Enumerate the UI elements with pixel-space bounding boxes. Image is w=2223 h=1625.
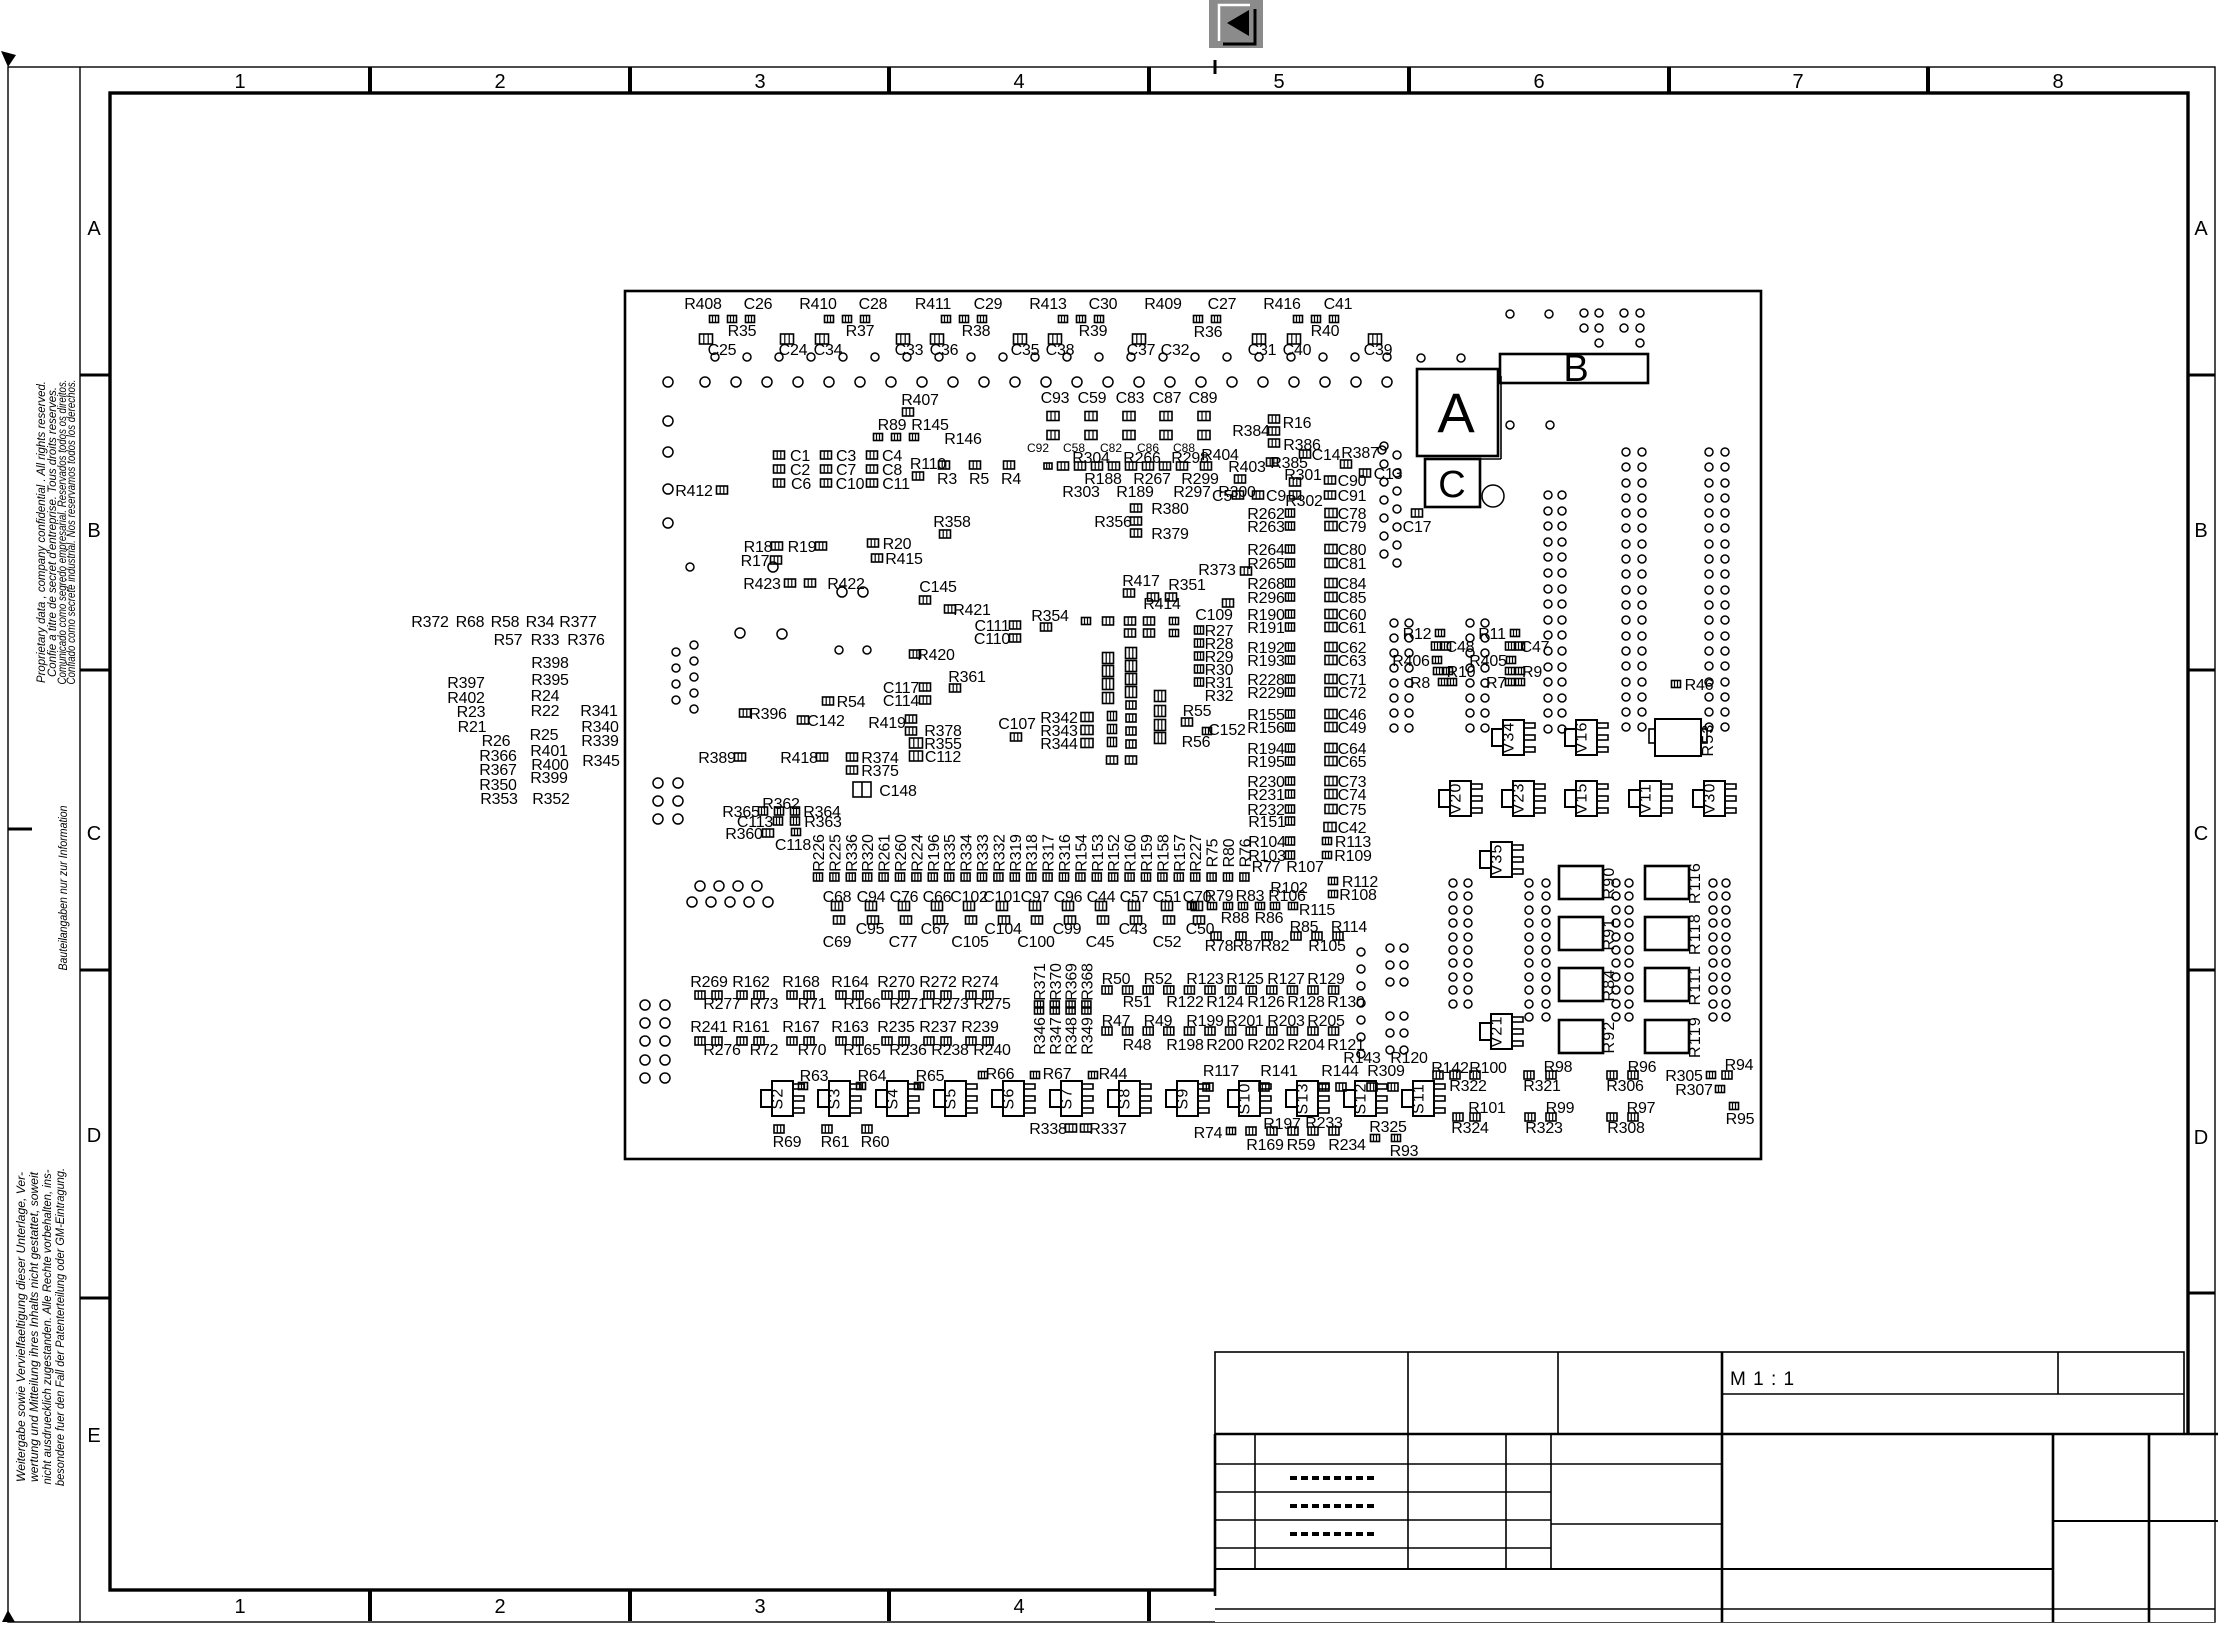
capacitor C37	[1127, 342, 1156, 359]
resistor R413	[1029, 296, 1067, 313]
resistor R87	[1233, 938, 1262, 955]
svg-text:R346: R346	[1032, 1017, 1049, 1055]
capacitor C148	[853, 782, 917, 800]
resistor R47	[1102, 1013, 1131, 1030]
svg-text:R261: R261	[877, 834, 894, 872]
capacitor C71	[1325, 672, 1367, 689]
resistor R350	[479, 777, 517, 794]
resistor R236	[889, 1042, 927, 1059]
capacitor C26	[744, 296, 773, 313]
resistor R349	[1079, 1017, 1096, 1055]
resistor R229	[1247, 685, 1294, 702]
svg-text:S5: S5	[943, 1088, 960, 1110]
resistor R371	[1032, 963, 1049, 1001]
svg-text:R309: R309	[1367, 1063, 1405, 1080]
capacitor C35	[1011, 342, 1040, 359]
svg-text:R86: R86	[1255, 910, 1284, 927]
resistor R265	[1247, 556, 1294, 573]
through-hole pads	[1390, 619, 1489, 732]
resistor R36	[1194, 324, 1223, 341]
resistor R410	[799, 296, 837, 313]
svg-text:R413: R413	[1029, 296, 1067, 313]
transistor S3	[818, 1081, 861, 1116]
capacitor C5	[1212, 488, 1244, 505]
svg-text:V30: V30	[1702, 782, 1719, 814]
svg-text:R369: R369	[1064, 963, 1081, 1001]
svg-text:C97: C97	[1021, 889, 1050, 906]
svg-text:C33: C33	[895, 342, 924, 359]
resistor R82	[1261, 938, 1290, 955]
resistor R56	[1182, 734, 1211, 751]
transistor V30	[1693, 781, 1736, 816]
resistor R68	[456, 614, 485, 631]
svg-text:R204: R204	[1287, 1037, 1325, 1054]
resistor R124	[1206, 994, 1244, 1011]
svg-text:R87: R87	[1233, 938, 1262, 955]
resistor R237	[919, 1019, 957, 1036]
resistor R376	[567, 632, 605, 649]
Weitergabe notice text	[14, 1168, 67, 1486]
resistor R395	[531, 672, 569, 689]
svg-text:R260: R260	[893, 834, 910, 872]
resistor R261	[877, 834, 894, 881]
svg-text:R118: R118	[1687, 913, 1704, 955]
svg-text:R195: R195	[1247, 754, 1285, 771]
svg-text:C57: C57	[1120, 889, 1149, 906]
svg-text:R265: R265	[1247, 556, 1285, 573]
resistor R263	[1247, 519, 1294, 536]
resistor R65	[915, 1068, 945, 1090]
svg-text:R395: R395	[531, 672, 569, 689]
capacitor C78	[1325, 506, 1367, 523]
resistor R321	[1523, 1078, 1561, 1095]
capacitor C97	[1021, 889, 1050, 906]
svg-text:C87: C87	[1153, 390, 1182, 407]
resistor R28	[1195, 636, 1234, 653]
svg-text:R368: R368	[1079, 963, 1096, 1001]
resistor R146	[944, 431, 982, 448]
capacitor C39	[1364, 342, 1393, 359]
resistor R386	[1283, 437, 1321, 454]
resistor R53	[1649, 719, 1717, 756]
svg-text:R88: R88	[1221, 910, 1250, 927]
zone letters left	[87, 218, 102, 1447]
capacitor C27	[1208, 296, 1237, 313]
capacitor C64	[1325, 741, 1367, 758]
svg-text:R200: R200	[1206, 1037, 1244, 1054]
svg-text:R72: R72	[750, 1042, 779, 1059]
resistor R356	[1094, 514, 1141, 531]
resistor R336	[844, 834, 861, 881]
resistor R199	[1186, 1013, 1224, 1030]
resistor R355	[910, 736, 963, 753]
resistor R8	[1410, 675, 1457, 692]
capacitor C48	[1432, 639, 1475, 656]
svg-text:C101: C101	[983, 889, 1021, 906]
svg-text:C41: C41	[1324, 296, 1353, 313]
svg-text:C63: C63	[1338, 653, 1367, 670]
resistor R33	[531, 632, 560, 649]
resistor R85	[1290, 919, 1319, 936]
resistor R227	[1188, 834, 1205, 881]
resistor R241	[690, 1019, 728, 1036]
svg-text:R332: R332	[991, 834, 1008, 872]
svg-text:R415: R415	[885, 551, 923, 568]
svg-text:R308: R308	[1607, 1120, 1645, 1137]
svg-text:R418: R418	[780, 750, 818, 767]
svg-text:R107: R107	[1286, 859, 1324, 876]
resistor R298	[1171, 450, 1209, 467]
svg-text:R126: R126	[1247, 994, 1285, 1011]
svg-text:R272: R272	[919, 974, 957, 991]
svg-text:C105: C105	[951, 934, 989, 951]
svg-text:R306: R306	[1606, 1078, 1644, 1095]
through-hole pads	[687, 881, 773, 907]
resistor R347	[1048, 1017, 1065, 1055]
resistor R109	[1323, 848, 1373, 865]
capacitor C80	[1325, 542, 1367, 559]
svg-text:R349: R349	[1079, 1017, 1096, 1055]
resistor R44	[1089, 1066, 1128, 1083]
resistor R55	[1182, 703, 1212, 726]
component pads	[695, 991, 993, 999]
svg-text:R122: R122	[1166, 994, 1204, 1011]
svg-text:R70: R70	[798, 1042, 827, 1059]
resistor R361	[948, 669, 986, 692]
svg-text:C145: C145	[919, 579, 957, 596]
resistor R271	[889, 996, 927, 1013]
svg-text:R423: R423	[743, 576, 781, 593]
resistor R378	[924, 723, 962, 740]
component pads	[1102, 986, 1339, 994]
svg-text:R168: R168	[782, 974, 820, 991]
resistor R94	[1725, 1057, 1754, 1074]
resistor R230	[1247, 774, 1294, 791]
resistor R362	[762, 796, 800, 813]
resistor R152	[1106, 834, 1123, 881]
svg-text:R34: R34	[526, 614, 555, 631]
resistor R112	[1329, 874, 1379, 891]
svg-text:R347: R347	[1048, 1017, 1065, 1055]
svg-text:C14: C14	[1312, 447, 1341, 464]
svg-text:C43: C43	[1119, 921, 1148, 938]
resistor R224	[909, 834, 926, 881]
svg-text:R338: R338	[1029, 1121, 1067, 1138]
svg-text:V20: V20	[1448, 782, 1465, 814]
capacitor C152	[1203, 722, 1247, 739]
svg-text:Confiado como secrete industri: Confiado como secrete industrial. Nos re…	[66, 380, 78, 685]
svg-text:C36: C36	[930, 342, 959, 359]
resistor R416	[1263, 296, 1301, 313]
resistor R267	[1133, 471, 1171, 488]
resistor R59	[1287, 1137, 1316, 1154]
resistor R125	[1226, 971, 1264, 988]
resistor R34	[526, 614, 555, 631]
resistor R164	[831, 974, 869, 991]
resistor R322	[1449, 1078, 1487, 1095]
svg-text:C5: C5	[1212, 488, 1232, 505]
svg-text:R153: R153	[1090, 834, 1107, 872]
svg-text:S4: S4	[885, 1088, 902, 1110]
resistor R408	[684, 296, 722, 313]
component pads	[1211, 932, 1343, 940]
transistor S7	[1050, 1081, 1093, 1116]
through-hole pads column	[1380, 442, 1401, 567]
resistor R417	[1122, 573, 1160, 597]
transistor V15	[1565, 781, 1608, 816]
svg-text:R353: R353	[480, 791, 518, 808]
capacitor C30	[1089, 296, 1118, 313]
capacitor C85	[1325, 590, 1367, 607]
svg-text:R360: R360	[725, 826, 763, 843]
svg-text:R77: R77	[1252, 859, 1281, 876]
resistor R83	[1236, 888, 1265, 905]
component pads	[1047, 412, 1210, 440]
svg-text:C83: C83	[1116, 390, 1145, 407]
svg-text:R421: R421	[953, 602, 991, 619]
resistor R31	[1195, 675, 1234, 692]
capacitor C87	[1153, 390, 1182, 407]
resistor R66	[979, 1066, 1015, 1083]
resistor R145	[911, 417, 949, 434]
svg-text:R276: R276	[703, 1042, 741, 1059]
svg-text:R334: R334	[959, 834, 976, 872]
resistor R348	[1064, 1017, 1081, 1055]
resistor R387	[1341, 445, 1380, 468]
svg-text:C109: C109	[1195, 607, 1233, 624]
svg-text:M 1 : 1: M 1 : 1	[1730, 1369, 1795, 1390]
svg-text:R169: R169	[1246, 1137, 1284, 1154]
transistor S8	[1108, 1081, 1151, 1116]
capacitor C43	[1119, 921, 1148, 938]
IC C	[1425, 459, 1480, 507]
resistor R363	[804, 814, 842, 831]
svg-text:R271: R271	[889, 996, 927, 1013]
svg-text:R238: R238	[931, 1042, 969, 1059]
resistor R39	[1079, 323, 1108, 340]
svg-text:C75: C75	[1338, 802, 1367, 819]
svg-text:C25: C25	[708, 342, 737, 359]
svg-text:R236: R236	[889, 1042, 927, 1059]
svg-text:Bauteilangaben nur zur Informa: Bauteilangaben nur zur Information	[56, 805, 70, 970]
resistor R204	[1287, 1037, 1325, 1054]
svg-text:V34: V34	[1501, 721, 1518, 753]
through-hole pad	[1378, 446, 1386, 454]
capacitor C95	[856, 921, 885, 938]
svg-text:R101: R101	[1468, 1100, 1506, 1117]
resistor R274	[961, 974, 999, 991]
capacitor C14	[1300, 447, 1341, 464]
svg-text:B: B	[87, 520, 100, 542]
component pads	[1102, 1027, 1339, 1035]
svg-text:R157: R157	[1172, 834, 1189, 872]
resistor R200	[1206, 1037, 1244, 1054]
resistor R239	[961, 1019, 999, 1036]
svg-text:R398: R398	[531, 655, 569, 672]
resistor R103	[1248, 848, 1294, 865]
transistor V23	[1502, 781, 1545, 816]
capacitor C58	[1063, 441, 1085, 455]
capacitor C88	[1173, 441, 1195, 455]
IC A	[1417, 369, 1501, 459]
svg-text:R307: R307	[1675, 1082, 1713, 1099]
component pads	[1188, 903, 1298, 910]
capacitor C24	[779, 342, 808, 359]
resistor R88	[1221, 910, 1250, 927]
svg-text:R202: R202	[1247, 1037, 1285, 1054]
resistor R63	[799, 1068, 829, 1090]
svg-text:R408: R408	[684, 296, 722, 313]
svg-text:C35: C35	[1011, 342, 1040, 359]
capacitor C13	[1360, 466, 1403, 483]
svg-text:R95: R95	[1726, 1111, 1755, 1128]
svg-text:C51: C51	[1153, 889, 1182, 906]
svg-text:R53: R53	[1700, 724, 1717, 757]
resistor R403	[1228, 459, 1266, 483]
transistor S4	[876, 1081, 919, 1116]
svg-text:C95: C95	[856, 921, 885, 938]
resistor R304	[1072, 450, 1110, 467]
svg-text:R322: R322	[1449, 1078, 1487, 1095]
svg-text:R40: R40	[1311, 323, 1340, 340]
svg-text:5: 5	[1273, 71, 1284, 93]
svg-text:C17: C17	[1403, 519, 1432, 536]
svg-text:C79: C79	[1338, 519, 1367, 536]
resistor R18	[744, 539, 783, 556]
through-hole pads	[640, 1000, 670, 1083]
capacitor C94	[857, 889, 886, 906]
component pads	[1103, 648, 1166, 765]
svg-text:R225: R225	[827, 834, 844, 872]
capacitor C67	[921, 921, 950, 938]
capacitor C31	[1248, 342, 1277, 359]
svg-text:3: 3	[754, 71, 765, 93]
resistor R26	[482, 733, 511, 750]
resistor R153	[1090, 834, 1107, 881]
through-hole pad row	[700, 377, 1392, 387]
svg-text:C85: C85	[1338, 590, 1367, 607]
svg-text:R377: R377	[559, 614, 597, 631]
resistor R419	[868, 715, 916, 735]
resistor R78	[1205, 938, 1234, 955]
svg-text:R89: R89	[878, 417, 907, 434]
svg-text:S2: S2	[770, 1088, 787, 1110]
resistor R369	[1064, 963, 1081, 1001]
resistor R16	[1283, 415, 1312, 432]
transistor V16	[1565, 720, 1608, 755]
svg-text:R389: R389	[698, 750, 736, 767]
resistor R423	[743, 576, 815, 593]
svg-text:R273: R273	[931, 996, 969, 1013]
svg-text:S13: S13	[1295, 1082, 1312, 1114]
svg-text:R108: R108	[1339, 887, 1377, 904]
capacitor C41	[1324, 296, 1353, 313]
svg-text:R17: R17	[741, 553, 770, 570]
resistor R104	[1248, 834, 1294, 851]
capacitor C107	[998, 716, 1036, 741]
svg-text:R384: R384	[1232, 423, 1270, 440]
capacitor C91	[1325, 488, 1367, 505]
svg-text:R111: R111	[1687, 965, 1704, 1006]
capacitor C99	[1053, 921, 1082, 938]
svg-text:nicht ausdruecklich zugestand: nicht ausdruecklich zugestanden. Alle Re…	[40, 1169, 54, 1484]
capacitor C96	[1054, 889, 1083, 906]
board outline	[625, 291, 1761, 1159]
resistor R74	[1194, 1125, 1236, 1142]
resistor R400	[531, 757, 569, 774]
resistor R384	[1232, 415, 1279, 447]
resistor R160	[1123, 834, 1140, 881]
resistor R339	[581, 733, 619, 750]
resistor R367	[479, 762, 517, 779]
svg-text:R375: R375	[861, 763, 899, 780]
resistor R91	[1559, 917, 1618, 950]
resistor R324	[1451, 1120, 1489, 1137]
capacitor C101	[983, 889, 1021, 906]
svg-text:R371: R371	[1032, 963, 1049, 1001]
resistor R309	[1367, 1063, 1405, 1080]
svg-text:R54: R54	[837, 694, 866, 711]
through-hole pads	[1417, 354, 1554, 429]
capacitor C92	[1027, 441, 1049, 455]
resistor R418	[780, 750, 827, 767]
resistor R165	[843, 1042, 881, 1059]
svg-text:R146: R146	[944, 431, 982, 448]
capacitor C74	[1325, 787, 1367, 804]
component pads	[710, 316, 1339, 323]
resistor R11	[1478, 626, 1519, 643]
resistor R84	[1559, 968, 1618, 1001]
svg-text:R99: R99	[1546, 1100, 1575, 1117]
svg-text:R144: R144	[1321, 1063, 1359, 1080]
svg-text:S10: S10	[1237, 1082, 1254, 1114]
svg-text:A: A	[1437, 381, 1475, 444]
resistor R120	[1390, 1050, 1428, 1067]
svg-text:R22: R22	[531, 703, 560, 720]
resistor R23	[457, 704, 486, 721]
svg-text:R92: R92	[1601, 1021, 1618, 1054]
resistor R151	[1248, 814, 1294, 831]
capacitor C83	[1116, 390, 1145, 407]
svg-text:R352: R352	[532, 791, 570, 808]
resistor R189	[1116, 484, 1154, 501]
resistor R193	[1247, 653, 1294, 670]
resistor R127	[1267, 971, 1305, 988]
resistor R203	[1267, 1013, 1305, 1030]
svg-text:S6: S6	[1001, 1088, 1018, 1110]
resistor R101	[1468, 1100, 1506, 1117]
svg-text:R337: R337	[1089, 1121, 1127, 1138]
title block	[1215, 1352, 2218, 1622]
svg-text:C10: C10	[836, 476, 865, 493]
resistor R157	[1172, 834, 1189, 881]
svg-text:R152: R152	[1106, 834, 1123, 872]
resistor R373	[1198, 562, 1251, 579]
capacitor C111	[974, 618, 1020, 635]
resistor R25	[530, 727, 559, 744]
svg-text:R416: R416	[1263, 296, 1301, 313]
resistor R375	[847, 763, 900, 780]
component pads	[874, 434, 919, 441]
resistor R398	[531, 655, 569, 672]
resistor R305	[1665, 1068, 1715, 1085]
capacitor C114	[883, 693, 931, 710]
svg-text:R117: R117	[1203, 1063, 1240, 1080]
svg-text:C114: C114	[883, 693, 920, 710]
svg-text:C37: C37	[1127, 342, 1156, 359]
capacitor C33	[895, 342, 924, 359]
svg-text:R237: R237	[919, 1019, 957, 1036]
